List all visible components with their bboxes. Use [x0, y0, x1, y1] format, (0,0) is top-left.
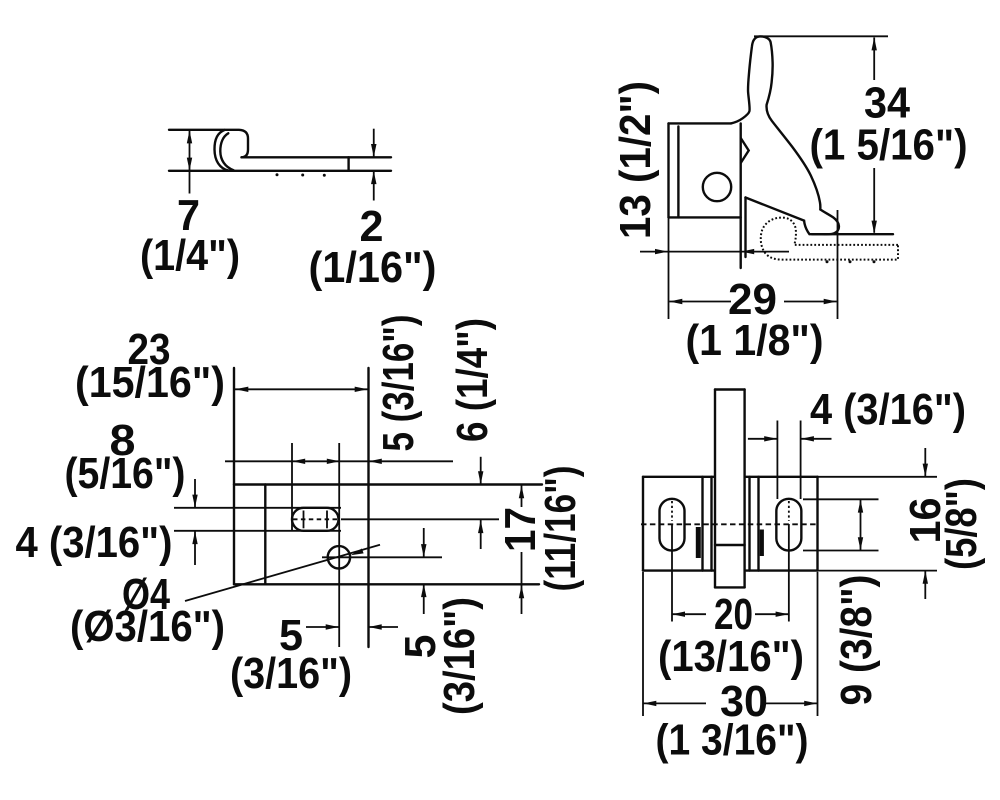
- hook fold line: [264, 485, 266, 585]
- svg-text:(15/16"): (15/16"): [75, 358, 225, 407]
- svg-text:4 (3/16"): 4 (3/16"): [16, 518, 173, 567]
- view 2: elbow catch, side view: [669, 36, 899, 268]
- view 3: strike plate, top view: [174, 368, 542, 647]
- svg-text:(3/16"): (3/16"): [230, 649, 352, 698]
- svg-text:(1 5/16"): (1 5/16"): [810, 121, 968, 170]
- strike plate strip top edge: [242, 156, 392, 158]
- strike plate engaged (hidden, dotted): [761, 218, 898, 260]
- left mounting slot: [660, 499, 685, 551]
- svg-text:(1/4"): (1/4"): [140, 231, 240, 280]
- svg-text:(1 1/8"): (1 1/8"): [686, 316, 824, 365]
- dimension 34 (1 5/16"): [754, 36, 968, 233]
- right slot centre line: [788, 501, 790, 521]
- bracket left edge (inner fold line): [677, 127, 679, 218]
- dimension 6 (1/4"): [448, 318, 497, 549]
- dimension 5 (3/16") hole to bottom edge: [396, 528, 484, 715]
- left slot centre line: [671, 501, 673, 521]
- hole vertical centre line / slot right tangent: [338, 443, 340, 647]
- base line / mounting plane: [812, 233, 893, 235]
- slot centre line dashed: [293, 518, 339, 520]
- slot bottom tangent extension: [174, 530, 341, 532]
- left guide flange edges: [701, 477, 703, 571]
- dimension 8 (5/16") and 5 (3/16") leader line: [65, 315, 454, 499]
- hook roll inner curve: [220, 133, 233, 170]
- strike plate strip bottom edge: [169, 170, 391, 172]
- hidden edge dots: [276, 173, 279, 176]
- view 1: strike plate, side profile: [169, 130, 391, 177]
- lever strip top: [715, 388, 745, 390]
- plate right edge: [367, 368, 369, 647]
- hidden edge dots under strike: [826, 260, 829, 263]
- slot center ticks: [303, 511, 305, 529]
- dimension 17 (11/16"): [496, 466, 585, 615]
- detent tab on bracket edge: [741, 138, 749, 163]
- dimension 4 (3/16") slot width: [748, 385, 966, 499]
- dimension 5 (3/16") hole to edge: [230, 611, 398, 698]
- slot top tangent extension: [174, 507, 341, 509]
- svg-text:5 (3/16"): 5 (3/16"): [374, 315, 423, 452]
- svg-text:13 (1/2"): 13 (1/2"): [611, 81, 660, 239]
- svg-text:(1 3/16"): (1 3/16"): [656, 716, 809, 765]
- lever strip bottom: [715, 586, 745, 588]
- strike plate top edge and hook cap: [169, 130, 248, 158]
- bracket top edge: [669, 122, 732, 124]
- mounting slot (obround): [292, 508, 339, 531]
- bracket flange bottom: [669, 216, 741, 218]
- lever nose line: [715, 544, 745, 546]
- catch lever outline: [731, 36, 839, 234]
- dimension 2 (1/16"): [309, 129, 437, 292]
- svg-text:(3/16"): (3/16"): [435, 597, 484, 715]
- dimension 30 (1 3/16"): [643, 572, 818, 765]
- dimension 29 (1 1/8"): [669, 210, 838, 365]
- screw hole Ø4: [328, 546, 350, 568]
- svg-text:(1/16"): (1/16"): [309, 243, 437, 292]
- svg-text:(5/8"): (5/8"): [937, 478, 986, 570]
- dimension 7 (1/4"): [140, 130, 240, 280]
- base plate left edge: [642, 477, 644, 571]
- hole horizontal centre line: [322, 556, 442, 558]
- right guide flange edges: [748, 477, 750, 571]
- plate left edge: [233, 368, 235, 584]
- base plate bottom edge + extension: [643, 569, 715, 571]
- left spring tab: [696, 527, 701, 558]
- svg-text:(11/16"): (11/16"): [536, 466, 585, 592]
- lever strip left edge: [714, 390, 716, 588]
- svg-text:(5/16"): (5/16"): [65, 449, 186, 498]
- bracket left edge (outer): [667, 123, 669, 217]
- svg-text:6 (1/4"): 6 (1/4"): [448, 318, 497, 442]
- right spring tab: [760, 530, 764, 557]
- plate top edge: [234, 483, 542, 485]
- svg-text:(13/16"): (13/16"): [658, 632, 804, 681]
- base plate top edge + extension: [643, 476, 715, 478]
- lever rear edge: [744, 198, 746, 258]
- bracket right edge: [740, 123, 742, 268]
- slot left tangent line: [291, 443, 293, 531]
- dimension 16 (5/8"): [901, 448, 986, 599]
- base plate right edge: [816, 477, 818, 571]
- hook roll outer curve: [214, 130, 228, 171]
- right mounting slot: [776, 499, 801, 551]
- view 4: elbow catch, front view: [641, 390, 937, 622]
- dimension Ø4 (Ø3/16") leader: [70, 545, 380, 651]
- dimension 9 (3/8"): [803, 499, 881, 705]
- dimension 13 (1/2"): [611, 81, 789, 254]
- lever strip right edge: [743, 390, 745, 588]
- svg-text:9 (3/8"): 9 (3/8"): [832, 575, 881, 706]
- strike plate right end: [347, 157, 349, 171]
- horizontal centre line dashed: [641, 523, 817, 525]
- plate bottom edge: [234, 583, 539, 585]
- dimension 23 (15/16"): [75, 325, 368, 407]
- screw hole: [703, 173, 731, 201]
- dimension 20 (13/16"): [658, 590, 804, 681]
- dimension 4 (3/16") slot width: [16, 479, 198, 567]
- svg-text:4 (3/16"): 4 (3/16"): [810, 385, 966, 434]
- slot centre line extension: [341, 518, 499, 520]
- svg-text:(Ø3/16"): (Ø3/16"): [70, 602, 225, 651]
